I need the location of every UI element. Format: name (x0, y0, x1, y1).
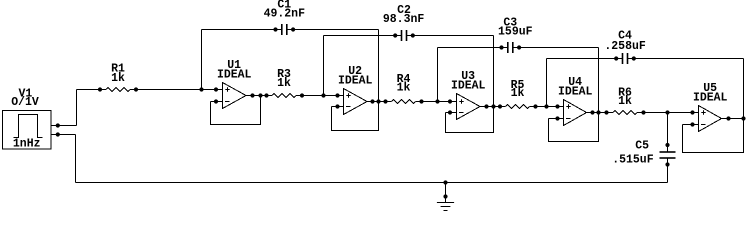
junction C3 left leg (435, 99, 439, 103)
- input dot U4 (555, 116, 559, 120)
svg-text:O/1V: O/1V (11, 96, 39, 109)
svg-text:IDEAL: IDEAL (451, 80, 486, 93)
resistor R1 1k (106, 87, 130, 91)
svg-text:.515uF: .515uF (612, 154, 654, 167)
+ input dot U2 (335, 93, 339, 97)
V1 lower terminal wire (51, 134, 76, 136)
output stub dot U1 (250, 93, 254, 97)
wire U1 + input stub (210, 89, 223, 91)
wire C1 right leg (378, 30, 380, 102)
+ input dot U4 (555, 104, 559, 108)
feedback wire U1 (211, 96, 261, 125)
wire U3 + input stub (444, 101, 457, 103)
wire C1 left leg (201, 30, 203, 90)
capacitor C2 98.3nF (324, 30, 494, 41)
wire V1- down to ground rail (75, 135, 77, 183)
svg-text:1k: 1k (277, 77, 291, 90)
output junction dot U5 (741, 116, 745, 120)
svg-text:1k: 1k (111, 72, 125, 85)
terminal dot R5 right (533, 104, 537, 108)
capacitor C5 .515uF (660, 113, 676, 183)
wire U3 - input stub (446, 112, 457, 114)
feedback wire U2 (332, 102, 379, 131)
terminal dot R1 left (98, 87, 102, 91)
wire V1+ up to main line (76, 90, 78, 126)
wire U4 + input stub (552, 106, 564, 108)
terminal dot R6 left (604, 110, 608, 114)
- input dot U2 (335, 104, 339, 108)
op-amp U4 (IDEAL) (564, 100, 587, 126)
junction V1- (56, 132, 60, 136)
feedback wire U4 (549, 113, 599, 142)
junction C4 left leg (544, 104, 548, 108)
- input dot U1 (214, 99, 218, 103)
output junction dot U2 (376, 99, 380, 103)
junction V1+ (56, 123, 60, 127)
resistor R3 1k (272, 93, 296, 97)
+ input dot U5 (690, 110, 694, 114)
feedback wire U5 (683, 119, 744, 153)
terminal dot R4 right (419, 99, 423, 103)
terminal dot R5 left (498, 104, 502, 108)
wire U5 output (722, 118, 744, 120)
terminal dot R6 right (641, 110, 645, 114)
output stub dot U2 (370, 99, 374, 103)
op-amp U5 (IDEAL) (699, 106, 722, 132)
terminal dot R4 left (383, 99, 387, 103)
terminal dot R3 left (264, 93, 268, 97)
wire C4 right leg (743, 59, 745, 119)
svg-text:IDEAL: IDEAL (217, 69, 252, 82)
junction C1 left leg (199, 87, 203, 91)
resistor R6 1k (613, 110, 637, 114)
svg-text:IDEAL: IDEAL (693, 92, 728, 105)
capacitor C3 159uF (438, 42, 599, 53)
wire U5 + input stub (687, 112, 699, 114)
voltage source V1 (3, 111, 52, 150)
output stub dot U3 (484, 104, 488, 108)
junction C5 top (665, 110, 669, 114)
svg-text:1k: 1k (618, 95, 632, 108)
- input dot U3 (448, 110, 452, 114)
V1 upper terminal wire (51, 125, 77, 127)
wire C4 left leg (546, 59, 548, 107)
wire U2 + input stub (332, 95, 344, 97)
wire C2 left leg (323, 36, 325, 96)
resistor R4 1k (392, 99, 416, 103)
terminal dot R3 right (300, 93, 304, 97)
terminal dot R1 right (134, 87, 138, 91)
svg-text:98.3nF: 98.3nF (383, 13, 425, 26)
wire C3 left leg (437, 48, 439, 102)
capacitor C4 .258uF (547, 53, 744, 64)
wire node A (V1+ to U1 input line) (77, 89, 107, 91)
op-amp U3 (IDEAL) (457, 94, 481, 120)
svg-text:IDEAL: IDEAL (338, 75, 373, 88)
wire stage 3 output line (480, 106, 506, 108)
wire C3 right leg (598, 48, 600, 113)
svg-text:1k: 1k (397, 81, 411, 94)
capacitor C1 49.2nF (202, 24, 379, 35)
svg-text:C5: C5 (635, 140, 649, 153)
output junction dot U4 (596, 110, 600, 114)
svg-text:49.2nF: 49.2nF (264, 7, 306, 20)
output stub dot U4 (590, 110, 594, 114)
ground (437, 180, 454, 210)
wire U1 - input stub (211, 101, 223, 103)
svg-text:IDEAL: IDEAL (558, 86, 593, 99)
wire ground rail (76, 182, 668, 184)
svg-text:1k: 1k (511, 87, 525, 100)
- input dot U5 (690, 122, 694, 126)
svg-text:159uF: 159uF (498, 26, 533, 39)
junction C2 left leg (321, 93, 325, 97)
op-amp U2 (IDEAL) (344, 89, 368, 115)
op-amp U1 (IDEAL) (223, 83, 247, 109)
+ input dot U1 (214, 87, 218, 91)
wire stage 2 output line (367, 101, 392, 103)
wire U4 - input stub (549, 118, 564, 120)
output junction dot U3 (491, 104, 495, 108)
+ input dot U3 (448, 99, 452, 103)
wire U5 - input stub (683, 124, 699, 126)
output stub dot U5 (726, 116, 730, 120)
svg-text:1nHz: 1nHz (13, 138, 41, 151)
svg-text:.258uF: .258uF (604, 40, 646, 53)
wire U2 - input stub (332, 106, 344, 108)
wire C2 right leg (493, 36, 495, 107)
resistor R5 1k (506, 104, 530, 108)
output junction dot U1 (258, 93, 262, 97)
feedback wire U3 (446, 107, 494, 133)
wire stage 4 output line (587, 112, 614, 114)
wire stage 1 output line (246, 95, 272, 97)
